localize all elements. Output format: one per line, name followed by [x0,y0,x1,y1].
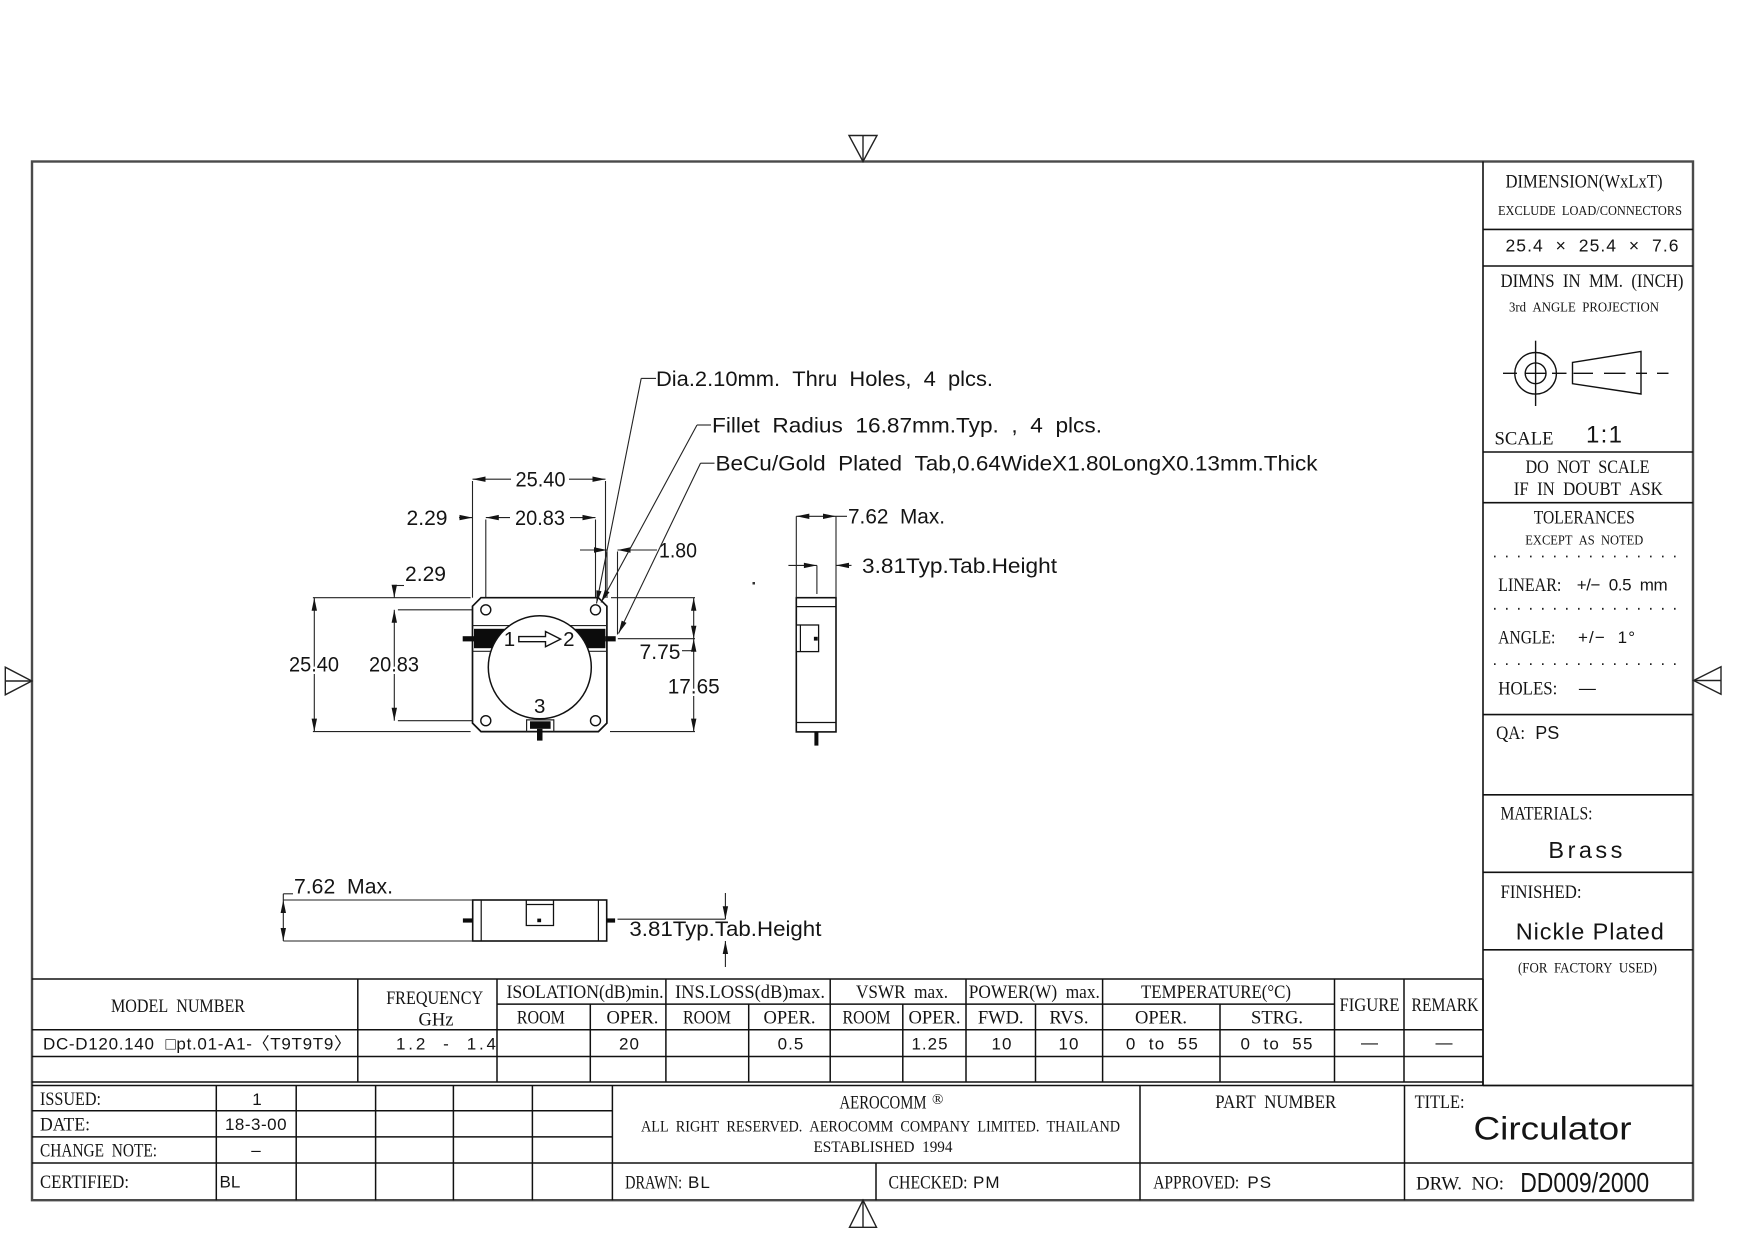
svg-text:PART NUMBER: PART NUMBER [1215,1092,1336,1113]
svg-text:+/− 1°: +/− 1° [1578,628,1635,647]
callout BeCu/Gold Plated Tab [619,463,715,633]
callout Dia.2.10mm thru holes [596,378,656,603]
projection symbol circle [1515,341,1557,406]
svg-text:ISOLATION(dB)min.: ISOLATION(dB)min. [507,983,664,1003]
sheet frame border [32,162,1693,1201]
svg-text:ROOM: ROOM [843,1008,891,1028]
black tab band ports 1-2 [474,629,605,648]
svg-text:BeCu/Gold Plated Tab,0.64Wid: BeCu/Gold Plated Tab,0.64WideX1.80LongX0… [716,453,1319,476]
svg-text:Nickle Plated: Nickle Plated [1516,918,1664,944]
svg-text:BL: BL [220,1173,241,1192]
svg-text:CHANGE NOTE:: CHANGE NOTE: [40,1141,157,1162]
svg-text:Fillet Radius 16.87mm.Typ.: Fillet Radius 16.87mm.Typ. , 4 plcs. [712,414,1102,437]
svg-text:RVS.: RVS. [1049,1008,1088,1028]
svg-text:OPER.: OPER. [606,1008,658,1028]
tab upper boundary line [473,625,607,627]
port 1 stub [463,636,475,641]
svg-text:25.40: 25.40 [516,469,566,492]
svg-text:(FOR FACTORY USED): (FOR FACTORY USED) [1518,961,1657,977]
extension line lower hole centerline (left) [398,720,481,722]
spec table grid [32,979,1483,1086]
port3 black tab [530,721,551,729]
side view tab tick [814,637,818,641]
svg-text:®: ® [932,1092,943,1108]
svg-text:DD009/2000: DD009/2000 [1520,1167,1649,1198]
dimension 17.65 vertical right [691,639,696,732]
extension line upper hole centerline (left) [398,609,481,611]
svg-text:CHECKED:: CHECKED: [889,1172,968,1193]
port3 notch right wall [553,719,555,731]
svg-text:ALL RIGHT RESERVED. AEROCOM: ALL RIGHT RESERVED. AEROCOMM COMPANY LIM… [641,1119,1120,1136]
svg-text:AEROCOMM: AEROCOMM [840,1093,927,1114]
svg-text:25.40: 25.40 [289,654,339,677]
svg-text:DATE:: DATE: [40,1114,90,1135]
front view right stub [607,918,615,922]
dimension 25.40 vertical [312,598,317,732]
sidebar dotted separators [1494,557,1684,665]
registration mark bottom center [850,1200,877,1227]
port3 notch left wall [526,719,528,731]
mounting hole top-left [481,605,491,615]
sidebar outline [1483,162,1693,1086]
vertical extension x=472.5 for 25.40 top dim [472,481,474,598]
svg-text:20: 20 [619,1035,640,1054]
front view tab outline [526,900,553,926]
front view extension lines 7.62 [283,899,472,901]
side view lid line [796,606,836,608]
svg-text:0 to 55: 0 to 55 [1241,1035,1313,1054]
vertical extension x=605.5 for 25.40 top dim [605,481,607,598]
svg-text:TITLE:: TITLE: [1415,1092,1465,1113]
svg-text:+/− 0.5 mm: +/− 0.5 mm [1577,576,1668,595]
front view body [473,900,607,941]
svg-text:TOLERANCES: TOLERANCES [1534,508,1635,529]
registration mark top center [849,136,877,162]
side view extension lines for 7.62 [795,516,797,597]
svg-text:REMARK: REMARK [1412,996,1480,1016]
front view tab tick [537,919,541,923]
mounting hole bottom-right [591,716,601,726]
front view left cap line [480,900,482,941]
svg-text:DIMENSION(WxLxT): DIMENSION(WxLxT) [1506,171,1663,192]
svg-text:OPER.: OPER. [909,1008,961,1028]
svg-text:0.5: 0.5 [778,1035,805,1054]
svg-text:ANGLE:: ANGLE: [1498,627,1555,648]
dimension 7.62 Max front view [281,894,293,941]
svg-text:20.83: 20.83 [515,507,565,530]
svg-text:Dia.2.10mm. Thru Holes, 4: Dia.2.10mm. Thru Holes, 4 plcs. [656,368,993,391]
stray plot dot [753,582,756,585]
dimension 20.83 horizontal top [486,515,596,520]
svg-text:ESTABLISHED 1994: ESTABLISHED 1994 [814,1139,953,1156]
registration mark right middle [1694,667,1721,695]
puck circle [488,616,591,719]
svg-text:2.29: 2.29 [407,507,448,530]
svg-text:3.81Typ.Tab.Height: 3.81Typ.Tab.Height [629,918,821,941]
svg-text:HOLES:: HOLES: [1498,679,1557,700]
svg-text:QA:: QA: [1496,723,1525,744]
dimension 2.29 vertical (hole to top edge) [392,585,404,598]
svg-text:BL: BL [688,1173,711,1192]
svg-text:EXCEPT AS NOTED: EXCEPT AS NOTED [1525,533,1643,548]
svg-text:GHz: GHz [419,1011,454,1031]
svg-text:TEMPERATURE(°C): TEMPERATURE(°C) [1141,983,1291,1003]
mounting hole bottom-left [481,716,491,726]
extension line part top edge (left) [313,597,471,599]
extension line part bottom edge (left) [313,731,471,733]
svg-text:10: 10 [992,1035,1013,1054]
front view left stub [463,918,473,922]
port3 notch top line [527,719,554,721]
svg-text:1: 1 [504,628,515,651]
svg-text:FIGURE: FIGURE [1340,996,1400,1016]
projection symbol center dash line [1503,372,1669,374]
extension line part bottom edge (right) [610,731,695,733]
svg-text:IF IN DOUBT ASK: IF IN DOUBT ASK [1514,479,1663,500]
svg-text:1.80: 1.80 [659,539,697,562]
side view bottom stub [814,732,818,746]
svg-text:7.62 Max.: 7.62 Max. [294,876,393,899]
svg-text:ISSUED:: ISSUED: [40,1089,101,1110]
svg-text:–: – [251,1141,261,1160]
svg-text:DRW. NO:: DRW. NO: [1416,1173,1504,1194]
dimension 25.40 horizontal top [473,477,606,482]
svg-text:1.25: 1.25 [911,1035,948,1054]
svg-text:FWD.: FWD. [978,1008,1024,1028]
svg-text:STRG.: STRG. [1251,1008,1303,1028]
svg-text:EXCLUDE LOAD/CONNECTORS: EXCLUDE LOAD/CONNECTORS [1498,203,1682,218]
port 2 stub [605,636,615,641]
extension line port2 centerline to 7.75 dim [618,638,695,640]
vertical extension x=595.5 for 20.83 top dim [595,520,597,606]
svg-text:MATERIALS:: MATERIALS: [1501,804,1593,825]
svg-text:DIMNS IN MM. (INCH): DIMNS IN MM. (INCH) [1501,272,1684,292]
svg-text:—: — [1361,1033,1378,1052]
svg-text:Brass: Brass [1548,837,1622,863]
svg-text:DC-D120.140 □pt.01-A1-〈T9T9T9: DC-D120.140 □pt.01-A1-〈T9T9T9〉 [43,1035,351,1054]
svg-text:OPER.: OPER. [1135,1008,1187,1028]
svg-text:PS: PS [1247,1173,1272,1192]
svg-text:LINEAR:: LINEAR: [1498,575,1561,596]
extension line part top edge (right) [611,597,695,599]
svg-text:OPER.: OPER. [764,1008,816,1028]
dimension 7.62 Max side view [796,514,847,519]
svg-text:SCALE: SCALE [1495,429,1554,450]
svg-text:2: 2 [563,628,574,651]
svg-text:MODEL NUMBER: MODEL NUMBER [111,997,246,1017]
svg-text:10: 10 [1059,1035,1080,1054]
svg-text:18-3-00: 18-3-00 [225,1115,287,1134]
port 3 stub [537,729,543,741]
tab lower boundary line [473,650,607,652]
svg-text:1.2 - 1.4: 1.2 - 1.4 [396,1035,496,1054]
registration mark left middle [5,667,32,695]
svg-text:ROOM: ROOM [683,1008,731,1028]
svg-text:3rd ANGLE PROJECTION: 3rd ANGLE PROJECTION [1509,299,1659,314]
svg-text:DO NOT SCALE: DO NOT SCALE [1526,457,1650,478]
part body octagon outline [473,598,607,732]
svg-text:17.65: 17.65 [668,676,720,699]
dimension 7.75 vertical right [682,598,696,651]
direction block arrow 1 to 2 [519,632,561,647]
dimension 3.81 Typ Tab Height front view [618,893,729,967]
side view tab inner line [799,625,801,652]
svg-text:PM: PM [973,1173,1001,1192]
svg-text:FREQUENCY: FREQUENCY [386,989,483,1009]
front view right cap line [597,900,599,941]
svg-text:APPROVED:: APPROVED: [1153,1172,1239,1193]
svg-text:VSWR max.: VSWR max. [856,983,948,1003]
svg-text:0 to 55: 0 to 55 [1126,1035,1198,1054]
dimension 2.29 horizontal (hole to left edge) [459,515,473,520]
vertical extension x=607 for 1.80 dim [606,552,608,599]
side view body [796,598,836,732]
svg-text:ROOM: ROOM [517,1008,565,1028]
vertical extension x=485.8 for 20.83 top dim [485,520,487,606]
svg-text:DRAWN:: DRAWN: [625,1172,682,1193]
title block grid [32,1086,1693,1201]
svg-text:1:1: 1:1 [1586,422,1622,449]
svg-text:7.62 Max.: 7.62 Max. [848,506,945,529]
svg-text:INS.LOSS(dB)max.: INS.LOSS(dB)max. [675,983,825,1003]
svg-text:3.81Typ.Tab.Height: 3.81Typ.Tab.Height [862,555,1057,578]
svg-text:POWER(W) max.: POWER(W) max. [969,983,1100,1003]
svg-text:—: — [1436,1033,1453,1052]
svg-text:Circulator: Circulator [1474,1111,1632,1147]
svg-text:1: 1 [252,1090,261,1109]
projection symbol cone [1573,351,1642,394]
side view tab outline [796,625,818,652]
svg-text:PS: PS [1535,723,1559,743]
svg-text:7.75: 7.75 [640,641,681,664]
vertical extension x=617.5 for 1.80 dim [617,552,619,635]
side view base line [796,722,836,724]
callout Fillet Radius [601,425,711,603]
dimension 1.80 (tab length) [580,547,657,552]
dimension 20.83 vertical [392,610,397,721]
svg-text:25.4 × 25.4 × 7.6: 25.4 × 25.4 × 7.6 [1506,235,1679,255]
svg-text:20.83: 20.83 [369,654,419,677]
svg-text:CERTIFIED:: CERTIFIED: [40,1172,129,1193]
mounting hole top-right [591,605,601,615]
dimension 3.81 Typ Tab Height side view [788,563,851,594]
svg-text:2.29: 2.29 [405,563,446,586]
svg-text:FINISHED:: FINISHED: [1501,882,1582,903]
svg-text:3: 3 [534,695,545,718]
svg-text:—: — [1579,679,1596,698]
